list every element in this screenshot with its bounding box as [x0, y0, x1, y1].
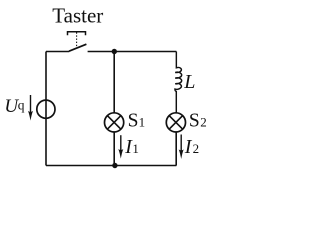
switch blade (Taster contact): [69, 44, 86, 51]
svg-text:S: S: [189, 111, 200, 132]
wire: top-left segment to switch: [46, 51, 69, 53]
inductor L coil with leads: [175, 52, 182, 113]
wire: lamp S1 down to bottom rail: [113, 132, 115, 165]
svg-text:1: 1: [139, 115, 146, 130]
node B (bottom junction dot): [112, 163, 117, 168]
svg-text:q: q: [18, 97, 25, 112]
svg-text:1: 1: [132, 141, 139, 156]
U_q voltage arrow: [28, 95, 33, 121]
pushbutton actuator dashed link: [76, 32, 78, 46]
current arrow I2: [179, 135, 184, 160]
wire: lamp S2 down to bottom-right corner: [175, 132, 177, 165]
wire: switch to node A: [88, 51, 115, 53]
svg-text:L: L: [183, 71, 195, 93]
svg-text:2: 2: [193, 141, 200, 156]
wire: left rail: [45, 52, 47, 166]
wire: bottom rail: [46, 165, 176, 167]
svg-text:I: I: [184, 136, 193, 158]
wire: node A down to lamp S1: [113, 52, 115, 113]
current arrow I1: [118, 135, 123, 158]
voltage source U_q circle: [37, 100, 55, 118]
node A (top junction dot): [112, 49, 117, 54]
pushbutton actuator cap: [68, 32, 86, 36]
svg-text:Taster: Taster: [52, 4, 103, 28]
lamp S1: [105, 113, 124, 132]
lamp S2: [166, 113, 185, 132]
wire: node A to top-right corner: [114, 51, 176, 53]
svg-text:S: S: [128, 111, 139, 132]
svg-text:2: 2: [200, 115, 207, 130]
